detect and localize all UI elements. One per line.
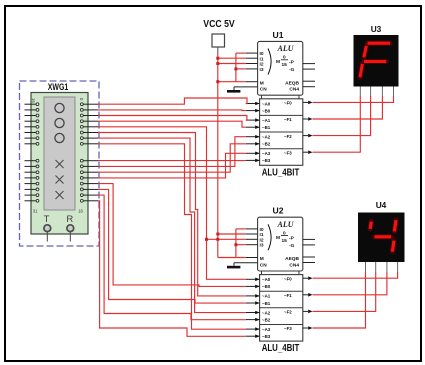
wire ch1 XWG1 pin1 to U1 B0 — [98, 109, 246, 112]
svg-text:16: 16 — [78, 209, 83, 214]
XWG1 panel X mark 1 — [56, 160, 64, 168]
hex display U3 digit F segment e — [360, 64, 362, 77]
junction S3 branch — [234, 67, 237, 70]
XWG1 right pin stubs 8-15 — [83, 161, 98, 201]
XWG1 right pin terminals — [80, 103, 83, 202]
svg-text:R: R — [66, 214, 73, 225]
wire VCC to U2 S1 — [218, 233, 246, 235]
wire ch0 XWG1 pin0 to U1 A0 — [98, 98, 247, 104]
wire ch7 XWG1 pin7 to U2 A3 — [98, 144, 246, 329]
svg-text:U1: U1 — [273, 30, 284, 40]
wire ch12 XWG1 pin12 to U2 B0 — [98, 184, 246, 287]
wire ch15 XWG1 pin15 to U2 B3 — [98, 201, 246, 336]
wire U1 F0 to U3 pin4 — [313, 96, 394, 102]
junction VCC U2 S2 — [216, 238, 219, 241]
XWG1 panel O indicator 1 — [55, 103, 64, 112]
XWG1 T terminal — [44, 225, 51, 232]
wire ch11 XWG1 pin11 to U1 A3 — [98, 153, 246, 178]
junction VCC M — [216, 80, 219, 83]
wire VCC to U2 S2 — [207, 238, 246, 240]
wire ch3 XWG1 pin3 to U1 B1 — [98, 121, 246, 127]
XWG1 R terminal — [67, 225, 74, 232]
wire ch10 XWG1 pin10 to U1 B2 — [98, 144, 246, 172]
wire ch6 XWG1 pin6 to U2 A2 — [98, 138, 246, 313]
ALU U1 — [234, 41, 315, 165]
wire VCC to U1 S1 — [218, 57, 246, 59]
word generator XWG1 body — [31, 93, 88, 235]
power source VCC stub — [217, 47, 219, 53]
svg-text:VCC 5V: VCC 5V — [203, 19, 235, 30]
hex display U4 digit 4 segment c — [392, 241, 394, 252]
ground GND1 — [227, 87, 240, 93]
wire U2 F1 to U4 pin3 — [313, 272, 387, 295]
wire ch4 XWG1 pin4 to U2 A0 — [98, 127, 246, 279]
wire to U2 S0 — [236, 228, 246, 230]
wire to U1 S3 — [236, 68, 246, 70]
hex display U4 digit 4 segment g — [374, 234, 391, 239]
hex display U3 body — [354, 35, 399, 87]
ALU U2 — [234, 217, 315, 341]
XWG1 panel X mark 3 — [56, 191, 64, 199]
junction drop ch4 and U2 S2 row — [205, 238, 208, 241]
wire ch13 XWG1 pin13 to U2 B1 — [98, 189, 246, 303]
wire VCC to U1 M — [218, 81, 246, 83]
wire U2 S0 S3 branch vertical — [235, 229, 237, 258]
wire ch5 XWG1 pin5 to U2 A1 — [98, 133, 246, 296]
svg-text:16: 16 — [31, 98, 36, 103]
XWG1 R terminal stub — [69, 232, 71, 242]
wire VCC vertical rail — [217, 53, 219, 258]
hex display U3 digit F segment f — [364, 46, 366, 57]
wire U1 F2 to U3 pin2 — [313, 96, 371, 136]
wire to U1 S0 — [236, 52, 246, 54]
wire U2 F2 to U4 pin2 — [313, 272, 376, 311]
wire U1 F3 to U3 pin1 — [313, 96, 361, 152]
word generator XWG1 inner panel — [44, 97, 75, 210]
XWG1 panel O indicator 3 — [55, 133, 64, 142]
wire U2 F3 to U4 pin1 — [313, 272, 366, 328]
XWG1 left pins 16-23 — [25, 104, 37, 144]
hex display U3 digit F segment a — [368, 41, 391, 46]
XWG1 panel O indicator 2 — [55, 118, 64, 127]
junction VCC S1 — [216, 57, 219, 60]
wire ch14 XWG1 pin14 to U2 B2 — [98, 195, 246, 320]
XWG1 panel X mark 2 — [56, 176, 64, 184]
power source VCC symbol — [212, 34, 225, 47]
XWG1 corner pin index labels 16 0 31 16 — [31, 98, 84, 214]
wire U1 F1 to U3 pin3 — [313, 96, 383, 119]
svg-text:U3: U3 — [371, 24, 382, 34]
junction U2 S3 branch — [234, 243, 237, 246]
svg-text:T: T — [44, 214, 50, 225]
XWG1 left pins 24-31 — [25, 161, 37, 201]
svg-text:XWG1: XWG1 — [48, 82, 68, 92]
wire ch9 XWG1 pin9 to U1 A2 — [98, 137, 246, 167]
hex display U4 digit 4 segment b — [394, 220, 396, 231]
wire VCC to U1 S2 — [218, 63, 246, 65]
svg-text:31: 31 — [33, 209, 38, 214]
hex display U4 digit 4 segment f — [370, 222, 371, 229]
wire to U2 S3 — [236, 244, 246, 246]
wire U1 S0 S3 branch vertical — [235, 53, 237, 82]
junction VCC S2 — [216, 62, 219, 65]
hex display U3 pins — [360, 87, 393, 97]
junction VCC U2 S1 — [216, 233, 219, 236]
svg-text:U2: U2 — [273, 206, 284, 216]
ground GND2 — [227, 263, 240, 269]
hex display U3 digit F segment g — [364, 59, 386, 64]
svg-text:U4: U4 — [376, 200, 387, 210]
hex display U4 pins — [366, 262, 398, 272]
XWG1 left pin terminals — [36, 103, 39, 202]
wire U2 F0 to U4 pin4 — [313, 272, 398, 278]
hex display U4 body — [358, 213, 405, 263]
wire ch2 XWG1 pin2 to U1 A1 — [98, 116, 247, 121]
svg-text:ALU_4BIT: ALU_4BIT — [262, 343, 300, 354]
wire VCC rail to U2 M — [218, 257, 246, 259]
XWG1 right pin stubs 0-7 — [83, 104, 98, 144]
XWG1 T terminal stub — [46, 232, 48, 242]
wire ch8 XWG1 pin8 to U1 B3 — [98, 160, 246, 162]
word generator XWG1 dashed selection box — [20, 81, 100, 246]
svg-text:ALU_4BIT: ALU_4BIT — [262, 167, 300, 178]
